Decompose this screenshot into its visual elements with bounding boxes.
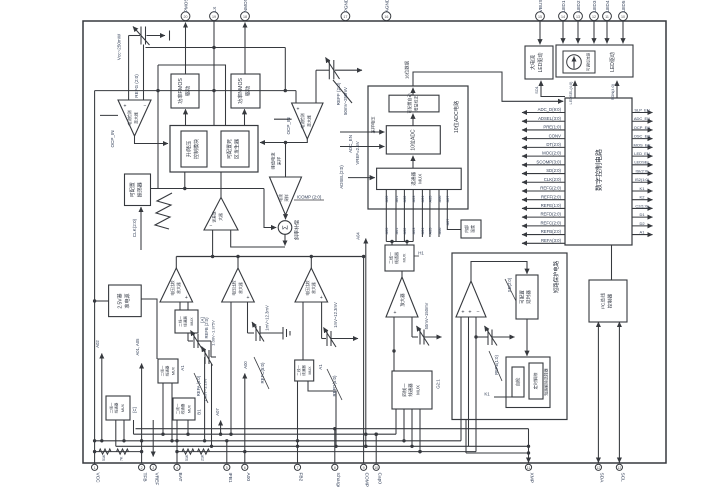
wire/label CONV out	[522, 133, 565, 138]
op-amp U3 error amplifier	[204, 197, 238, 230]
svg-text:LED驱动: LED驱动	[537, 53, 544, 73]
svg-text:VREF: VREF	[153, 473, 159, 486]
leader line REFA	[194, 373, 208, 403]
svg-text:XMP: XMP	[529, 473, 535, 483]
block 大电流LED驱动	[525, 46, 553, 79]
wire TFB stem	[141, 364, 143, 464]
svg-text:斜率补偿: 斜率补偿	[294, 220, 301, 240]
wire/label MOS_EN out	[632, 142, 653, 147]
svg-text:+: +	[468, 310, 471, 316]
block 选通器MUX	[377, 168, 462, 189]
block 可配置振荡器	[125, 174, 151, 206]
svg-text:A02: A02	[403, 228, 407, 235]
svg-text:采样: 采样	[276, 157, 283, 165]
svg-text:REFC(2:0): REFC(2:0)	[540, 220, 561, 225]
wire NMOS gate to pin	[244, 23, 246, 75]
svg-text:LED驱动: LED驱动	[609, 52, 616, 72]
wire/label PRE(1:0) out	[522, 125, 565, 130]
svg-text:LED1: LED1	[561, 0, 566, 12]
svg-text:I²C总线: I²C总线	[600, 293, 607, 309]
pin COMP (bottom)	[361, 464, 370, 487]
wire ADC channel A03	[412, 190, 414, 242]
svg-text:控制模块: 控制模块	[193, 139, 200, 159]
svg-text:10位ADC: 10位ADC	[410, 129, 417, 151]
wire COMP riser	[363, 257, 365, 464]
wire MUX E to amp	[401, 271, 403, 277]
svg-text:温度: 温度	[469, 225, 475, 233]
wire/label REFF(2:0) out	[522, 194, 565, 199]
svg-text:1mV~12.3mV: 1mV~12.3mV	[333, 302, 338, 328]
block 功率PMOS驱动	[171, 74, 199, 108]
svg-text:50mV~150mV: 50mV~150mV	[424, 302, 429, 329]
svg-text:+: +	[461, 310, 464, 316]
svg-text:ADSEL(2:0): ADSEL(2:0)	[339, 165, 344, 189]
svg-text:线通器: 线通器	[407, 383, 414, 397]
leader line REFE	[489, 351, 502, 381]
svg-text:SD1: SD1	[534, 86, 539, 94]
svg-text:A03: A03	[412, 228, 416, 235]
wire Cap0 riser	[375, 434, 377, 463]
svg-text:MUX: MUX	[188, 404, 192, 413]
wire BAT stem	[176, 420, 178, 463]
svg-text:2.5V基: 2.5V基	[117, 293, 124, 308]
wire/label DT(2:0) out	[522, 142, 565, 147]
svg-text:峰值电流: 峰值电流	[270, 152, 277, 170]
svg-text:控制器: 控制器	[607, 294, 614, 309]
svg-text:LED_EN: LED_EN	[634, 151, 650, 156]
pin LED4 (top)	[603, 0, 612, 20]
leader line SD	[505, 279, 516, 301]
svg-text:A07: A07	[446, 219, 450, 226]
svg-text:MUX: MUX	[416, 385, 421, 395]
wire A07 riser	[220, 421, 222, 435]
wire rail y90	[95, 90, 296, 92]
wire analog bus	[176, 256, 363, 258]
svg-text:REFG (2:0): REFG (2:0)	[134, 74, 139, 98]
pin PGND (top)	[341, 0, 350, 21]
svg-text:A03: A03	[412, 196, 416, 203]
comparator U6 short-circuit	[456, 281, 486, 317]
svg-text:大器: 大器	[218, 213, 223, 221]
svg-text:MOC(2:0): MOC(2:0)	[542, 151, 561, 156]
pin LED2 (top)	[574, 0, 583, 20]
wire/label REFA(3:0) out	[522, 238, 565, 243]
wire/label D1 out	[632, 212, 653, 217]
wire U3 noninv input	[231, 230, 285, 247]
wire cap C7 drop b	[211, 364, 213, 446]
capacitor C5	[412, 317, 442, 346]
wire U2 right input	[315, 70, 317, 103]
pin SCL (bottom)	[616, 464, 625, 482]
svg-text:6: 6	[244, 466, 246, 470]
op-amp A2 (BAT comparator)	[222, 268, 255, 302]
svg-text:16位数据: 16位数据	[404, 60, 411, 79]
wire LED pin 607	[606, 21, 608, 43]
svg-text:A02: A02	[95, 340, 100, 348]
svg-text:LED5: LED5	[621, 0, 626, 12]
svg-text:ISI(2:0): ISI(2:0)	[635, 168, 649, 173]
wire top rail y47	[146, 47, 286, 49]
wire Icharge stem	[334, 429, 336, 463]
svg-text:PRE(1:0): PRE(1:0)	[543, 125, 561, 130]
wire 16bit data bus	[413, 72, 563, 101]
wire bottom rail y440	[95, 440, 461, 442]
pin PMOS (top)	[181, 0, 190, 21]
wire A04 riser	[365, 239, 367, 447]
svg-text:51K: 51K	[102, 454, 106, 461]
svg-text:A02: A02	[403, 196, 407, 203]
svg-text:A06: A06	[438, 196, 442, 203]
svg-text:OSC_EN: OSC_EN	[634, 134, 651, 139]
svg-text:12: 12	[596, 466, 600, 470]
svg-text:A00: A00	[385, 228, 389, 235]
wire/label OSC_EN out	[632, 134, 653, 139]
block 短路解除选择器	[506, 357, 550, 408]
wire VREF in	[340, 146, 384, 148]
wire A02 riser	[101, 354, 103, 441]
wire/label OCP_EN out	[632, 125, 653, 130]
resistor R2	[117, 449, 129, 454]
svg-text:ADC_D(9:0): ADC_D(9:0)	[538, 107, 562, 112]
svg-text:MUX: MUX	[308, 366, 312, 375]
svg-text:+: +	[320, 295, 323, 301]
svg-text:K2: K2	[640, 195, 646, 200]
wire resistor rail left	[95, 451, 142, 453]
wire A1 input b	[187, 302, 189, 310]
block 功率NMOS驱动	[231, 74, 260, 108]
pin NMOS (top)	[241, 0, 250, 21]
svg-text:7: 7	[297, 466, 299, 470]
wire/label IS2(1:0) out	[632, 177, 653, 182]
wire U6 in3	[475, 317, 477, 452]
block 可配置死区发生器	[221, 131, 249, 167]
wire 2.5V ref left	[95, 300, 109, 302]
wire/label ADC_EN out	[632, 116, 653, 121]
block 2.5V基准电源	[109, 285, 142, 317]
wire MUX F in1	[395, 409, 397, 434]
wire delay to release	[526, 319, 528, 356]
wire bottom rail y446	[116, 445, 529, 447]
wire bottom rail y428	[136, 428, 529, 430]
wire/label MOC(2:0) out	[522, 151, 565, 156]
block MUX D	[295, 360, 314, 381]
wire A3 left input	[302, 302, 304, 360]
wire/label D2 out	[632, 221, 653, 226]
svg-text:振荡器: 振荡器	[137, 182, 144, 197]
op-amp U5 放大器	[386, 277, 418, 317]
wire U6 in2	[468, 317, 470, 446]
pin BAT (bottom)	[174, 464, 183, 481]
svg-text:MUX: MUX	[172, 366, 176, 375]
comparator U4 peak current sample	[270, 177, 302, 215]
svg-text:A00: A00	[243, 361, 248, 369]
wire ADC channel A07	[447, 190, 461, 230]
svg-text:MUX: MUX	[418, 174, 423, 184]
wire SD1 up	[541, 81, 565, 97]
wire oscillator output	[151, 188, 265, 190]
svg-text:13: 13	[617, 466, 621, 470]
wire control to NMOS driver	[244, 109, 246, 125]
svg-text:19: 19	[212, 15, 216, 19]
svg-text:误差放: 误差放	[212, 211, 217, 223]
capacitor C6	[474, 326, 514, 346]
pin SDA (bottom)	[595, 464, 604, 483]
wire XMP drop	[528, 429, 530, 463]
wire ADC_EN in	[340, 131, 384, 133]
wire amp A3 stub	[310, 257, 312, 269]
wire VBUS into driver	[539, 21, 541, 44]
svg-text:电流检测: 电流检测	[127, 110, 132, 125]
svg-text:定时解除: 定时解除	[532, 372, 539, 390]
svg-text:可配置: 可配置	[130, 182, 136, 197]
svg-text:内部: 内部	[463, 225, 469, 233]
svg-text:A07: A07	[446, 196, 450, 203]
svg-text:REFD(2:0): REFD(2:0)	[540, 212, 561, 217]
pin XMP (bottom)	[525, 464, 534, 483]
svg-text:Σ: Σ	[281, 225, 290, 230]
svg-text:12: 12	[592, 15, 596, 19]
svg-text:A05: A05	[429, 228, 433, 235]
wire/label ISI(2:0) out	[632, 168, 653, 173]
wire ADC channel A06	[438, 190, 440, 238]
wire U2 left input	[295, 91, 297, 103]
wire MUX F in4	[419, 409, 421, 452]
svg-text:可配置自动: 可配置自动	[406, 94, 412, 114]
svg-text:电流检测: 电流检测	[300, 113, 305, 128]
pin LX (top)	[210, 6, 219, 21]
pin Cap0 (bottom)	[373, 464, 382, 484]
svg-text:二线一: 二线一	[160, 365, 165, 376]
svg-text:VBUS: VBUS	[538, 0, 543, 12]
wire clock up to control	[184, 172, 186, 189]
pin FB2 (bottom)	[294, 464, 303, 481]
pin VCC (bottom)	[92, 464, 101, 483]
wire VREF out	[152, 420, 154, 457]
pin VBUS (top)	[536, 0, 545, 21]
capacitor C4	[322, 302, 358, 347]
svg-text:K1: K1	[484, 392, 490, 397]
svg-text:D1: D1	[639, 212, 645, 217]
wire ramp to summer	[264, 189, 276, 228]
pin TFB (bottom)	[139, 464, 148, 481]
pin AGND (top)	[382, 0, 391, 21]
svg-text:−: −	[210, 223, 213, 229]
svg-text:REFB (2:0): REFB (2:0)	[204, 317, 209, 339]
capacitor C1 (Vcc sense)	[129, 27, 170, 46]
wire cap C1 left lead down	[128, 36, 130, 101]
svg-text:增益校正: 增益校正	[413, 96, 419, 112]
svg-text:+: +	[124, 104, 127, 110]
wire/label A1 out	[632, 229, 653, 234]
wire 2.5V ref right	[141, 299, 157, 359]
wire rail y434 left elbow	[133, 420, 135, 434]
svg-text:CLK(2:0): CLK(2:0)	[544, 177, 562, 182]
wire MUX D out elbow	[308, 381, 336, 446]
pin VREF (bottom)	[150, 464, 159, 485]
block MUX G bottom-left	[106, 396, 130, 420]
wire LED pin 563	[562, 21, 564, 43]
sawtooth waveform symbol	[155, 193, 172, 229]
wire A-bus tie	[386, 241, 413, 243]
wire U6 output	[471, 262, 527, 282]
svg-text:ADSEL(3:0): ADSEL(3:0)	[538, 116, 561, 121]
capacitor C7b	[202, 341, 217, 366]
wire LED pin 594	[593, 21, 595, 43]
op-amp U1 current sense OCP left	[118, 100, 151, 136]
wire ADC to gain	[412, 114, 414, 126]
svg-text:SD(2:0): SD(2:0)	[546, 168, 561, 173]
pin A00 (bottom)	[242, 464, 251, 481]
svg-text:+: +	[185, 295, 188, 301]
svg-text:LEDSEL(4:0): LEDSEL(4:0)	[568, 81, 573, 105]
svg-text:电流: 电流	[278, 194, 283, 202]
block 内部温度	[461, 220, 481, 238]
block MUX E (H1)	[385, 245, 414, 271]
wire ADSEL in	[348, 177, 375, 179]
wire MUX E in a	[391, 242, 393, 246]
svg-text:放大器: 放大器	[134, 112, 139, 124]
svg-text:50mV~250mV: 50mV~250mV	[343, 87, 348, 115]
svg-text:LED3: LED3	[592, 0, 597, 12]
block 可配置延时器	[516, 275, 538, 319]
wire SCL	[618, 322, 620, 463]
block I2C总线控制器	[589, 280, 627, 322]
block 短路保护电路 outer	[452, 253, 567, 420]
svg-text:区发生器: 区发生器	[234, 139, 241, 159]
wire/label REFE(1:0) out	[522, 203, 565, 208]
op-amp A3 (FB2 comparator)	[295, 268, 328, 302]
svg-text:7K: 7K	[120, 456, 124, 461]
wire PMOS gate to pin	[185, 23, 187, 75]
wire U1 output to control block	[135, 136, 169, 144]
wire y453 to XMP	[466, 452, 529, 454]
block 数字控制电路	[565, 98, 632, 245]
svg-text:A01: A01	[395, 196, 399, 203]
svg-text:A1: A1	[180, 365, 185, 371]
svg-text:2: 2	[141, 466, 143, 470]
svg-text:11: 11	[527, 466, 531, 470]
wire/label C2(1:0) out	[632, 203, 653, 208]
svg-text:放大器: 放大器	[311, 282, 316, 294]
svg-text:CLK(2:0): CLK(2:0)	[132, 218, 137, 237]
svg-text:REFB(2:0): REFB(2:0)	[541, 229, 562, 234]
svg-text:选通器: 选通器	[410, 172, 417, 186]
wire MUX F in2	[403, 409, 405, 441]
svg-text:OCP_EN: OCP_EN	[634, 125, 651, 130]
svg-text:升/降压: 升/降压	[186, 141, 193, 157]
svg-text:线通器: 线通器	[301, 365, 306, 376]
wire U6 in1	[460, 317, 462, 441]
wire/label SCOMP(3:0) out	[522, 159, 565, 164]
block 自检	[512, 367, 524, 397]
block LED驱动 outer	[556, 45, 633, 77]
svg-text:13: 13	[576, 15, 580, 19]
wire LED pin 623	[622, 21, 624, 43]
svg-text:MUX: MUX	[402, 253, 407, 262]
block MUX C	[173, 398, 195, 420]
svg-text:可调恒流源: 可调恒流源	[586, 52, 591, 71]
svg-text:TFB: TFB	[142, 473, 148, 482]
svg-text:MUX: MUX	[121, 403, 125, 412]
svg-text:线通器: 线通器	[114, 402, 119, 413]
svg-text:A00: A00	[245, 473, 251, 482]
wire/label REFG(2:0) out	[522, 186, 565, 191]
svg-text:−: −	[144, 104, 147, 110]
svg-text:二线一: 二线一	[296, 365, 301, 376]
svg-text:自检: 自检	[515, 377, 522, 386]
svg-text:[C]: [C]	[132, 407, 137, 412]
pin IFB1 (bottom)	[224, 464, 233, 483]
svg-text:SLP_EN: SLP_EN	[634, 107, 649, 112]
wire/label SD(2:0) out	[522, 168, 565, 173]
svg-text:B1: B1	[197, 409, 202, 415]
svg-text:IFB1: IFB1	[227, 473, 233, 483]
node LX vertical wire	[213, 21, 215, 126]
op-amp U2 current sense OCP right	[292, 103, 323, 139]
wire/label K1 out	[632, 186, 653, 191]
wire CLK into oscillator	[140, 207, 142, 250]
svg-text:二线一: 二线一	[388, 252, 394, 264]
wire peak-sample feed	[285, 143, 287, 178]
svg-text:CONV: CONV	[549, 133, 562, 138]
svg-text:二线一: 二线一	[175, 403, 180, 414]
wire OCP_IN stub	[100, 114, 118, 116]
wire left rail vertical	[94, 91, 96, 465]
IC boundary box	[83, 21, 666, 463]
leader line REFC	[254, 357, 269, 389]
svg-text:A00: A00	[385, 196, 389, 203]
wire MUX to ADC	[412, 156, 414, 168]
svg-text:A04: A04	[356, 232, 361, 240]
svg-text:REFD(5:0): REFD(5:0)	[332, 375, 337, 397]
wire rail drop to U2	[284, 48, 286, 91]
wire ADC channel A01	[395, 190, 397, 242]
svg-text:短路解除选择器: 短路解除选择器	[544, 368, 549, 395]
svg-text:OCP_IN: OCP_IN	[110, 130, 115, 147]
wire U4 to summer	[285, 215, 287, 219]
svg-text:Icharge: Icharge	[335, 473, 341, 488]
svg-text:PMOS: PMOS	[183, 0, 188, 12]
svg-text:A01: A01	[395, 228, 399, 235]
svg-text:3: 3	[152, 466, 154, 470]
svg-text:A04: A04	[421, 228, 425, 235]
wire/label REFD(2:0) out	[522, 212, 565, 217]
svg-text:16: 16	[384, 15, 388, 19]
wire ADC channel A02	[403, 190, 405, 242]
svg-text:FB2: FB2	[298, 473, 304, 482]
svg-text:线通器: 线通器	[393, 252, 399, 264]
svg-text:11: 11	[605, 15, 609, 19]
svg-text:放大器: 放大器	[176, 282, 181, 294]
svg-text:17: 17	[343, 15, 347, 19]
wire digital to I2C	[611, 245, 613, 280]
block 10位ADC	[386, 126, 440, 154]
wire IFB1 stem	[226, 441, 228, 463]
svg-text:电压比较: 电压比较	[305, 280, 310, 295]
svg-text:10: 10	[621, 15, 625, 19]
svg-text:1: 1	[94, 466, 96, 470]
svg-text:−: −	[476, 310, 479, 316]
wire/label ADSEL(3:0) out	[522, 116, 565, 121]
wire A2 left input	[230, 302, 232, 434]
svg-text:8: 8	[334, 466, 336, 470]
svg-text:15: 15	[538, 15, 542, 19]
svg-text:51K: 51K	[185, 454, 189, 461]
svg-text:A01, A05: A01, A05	[135, 338, 140, 356]
svg-text:REFE(1:0): REFE(1:0)	[541, 203, 562, 208]
wire U5 left input	[393, 317, 395, 371]
wire MUX G out	[123, 420, 125, 441]
